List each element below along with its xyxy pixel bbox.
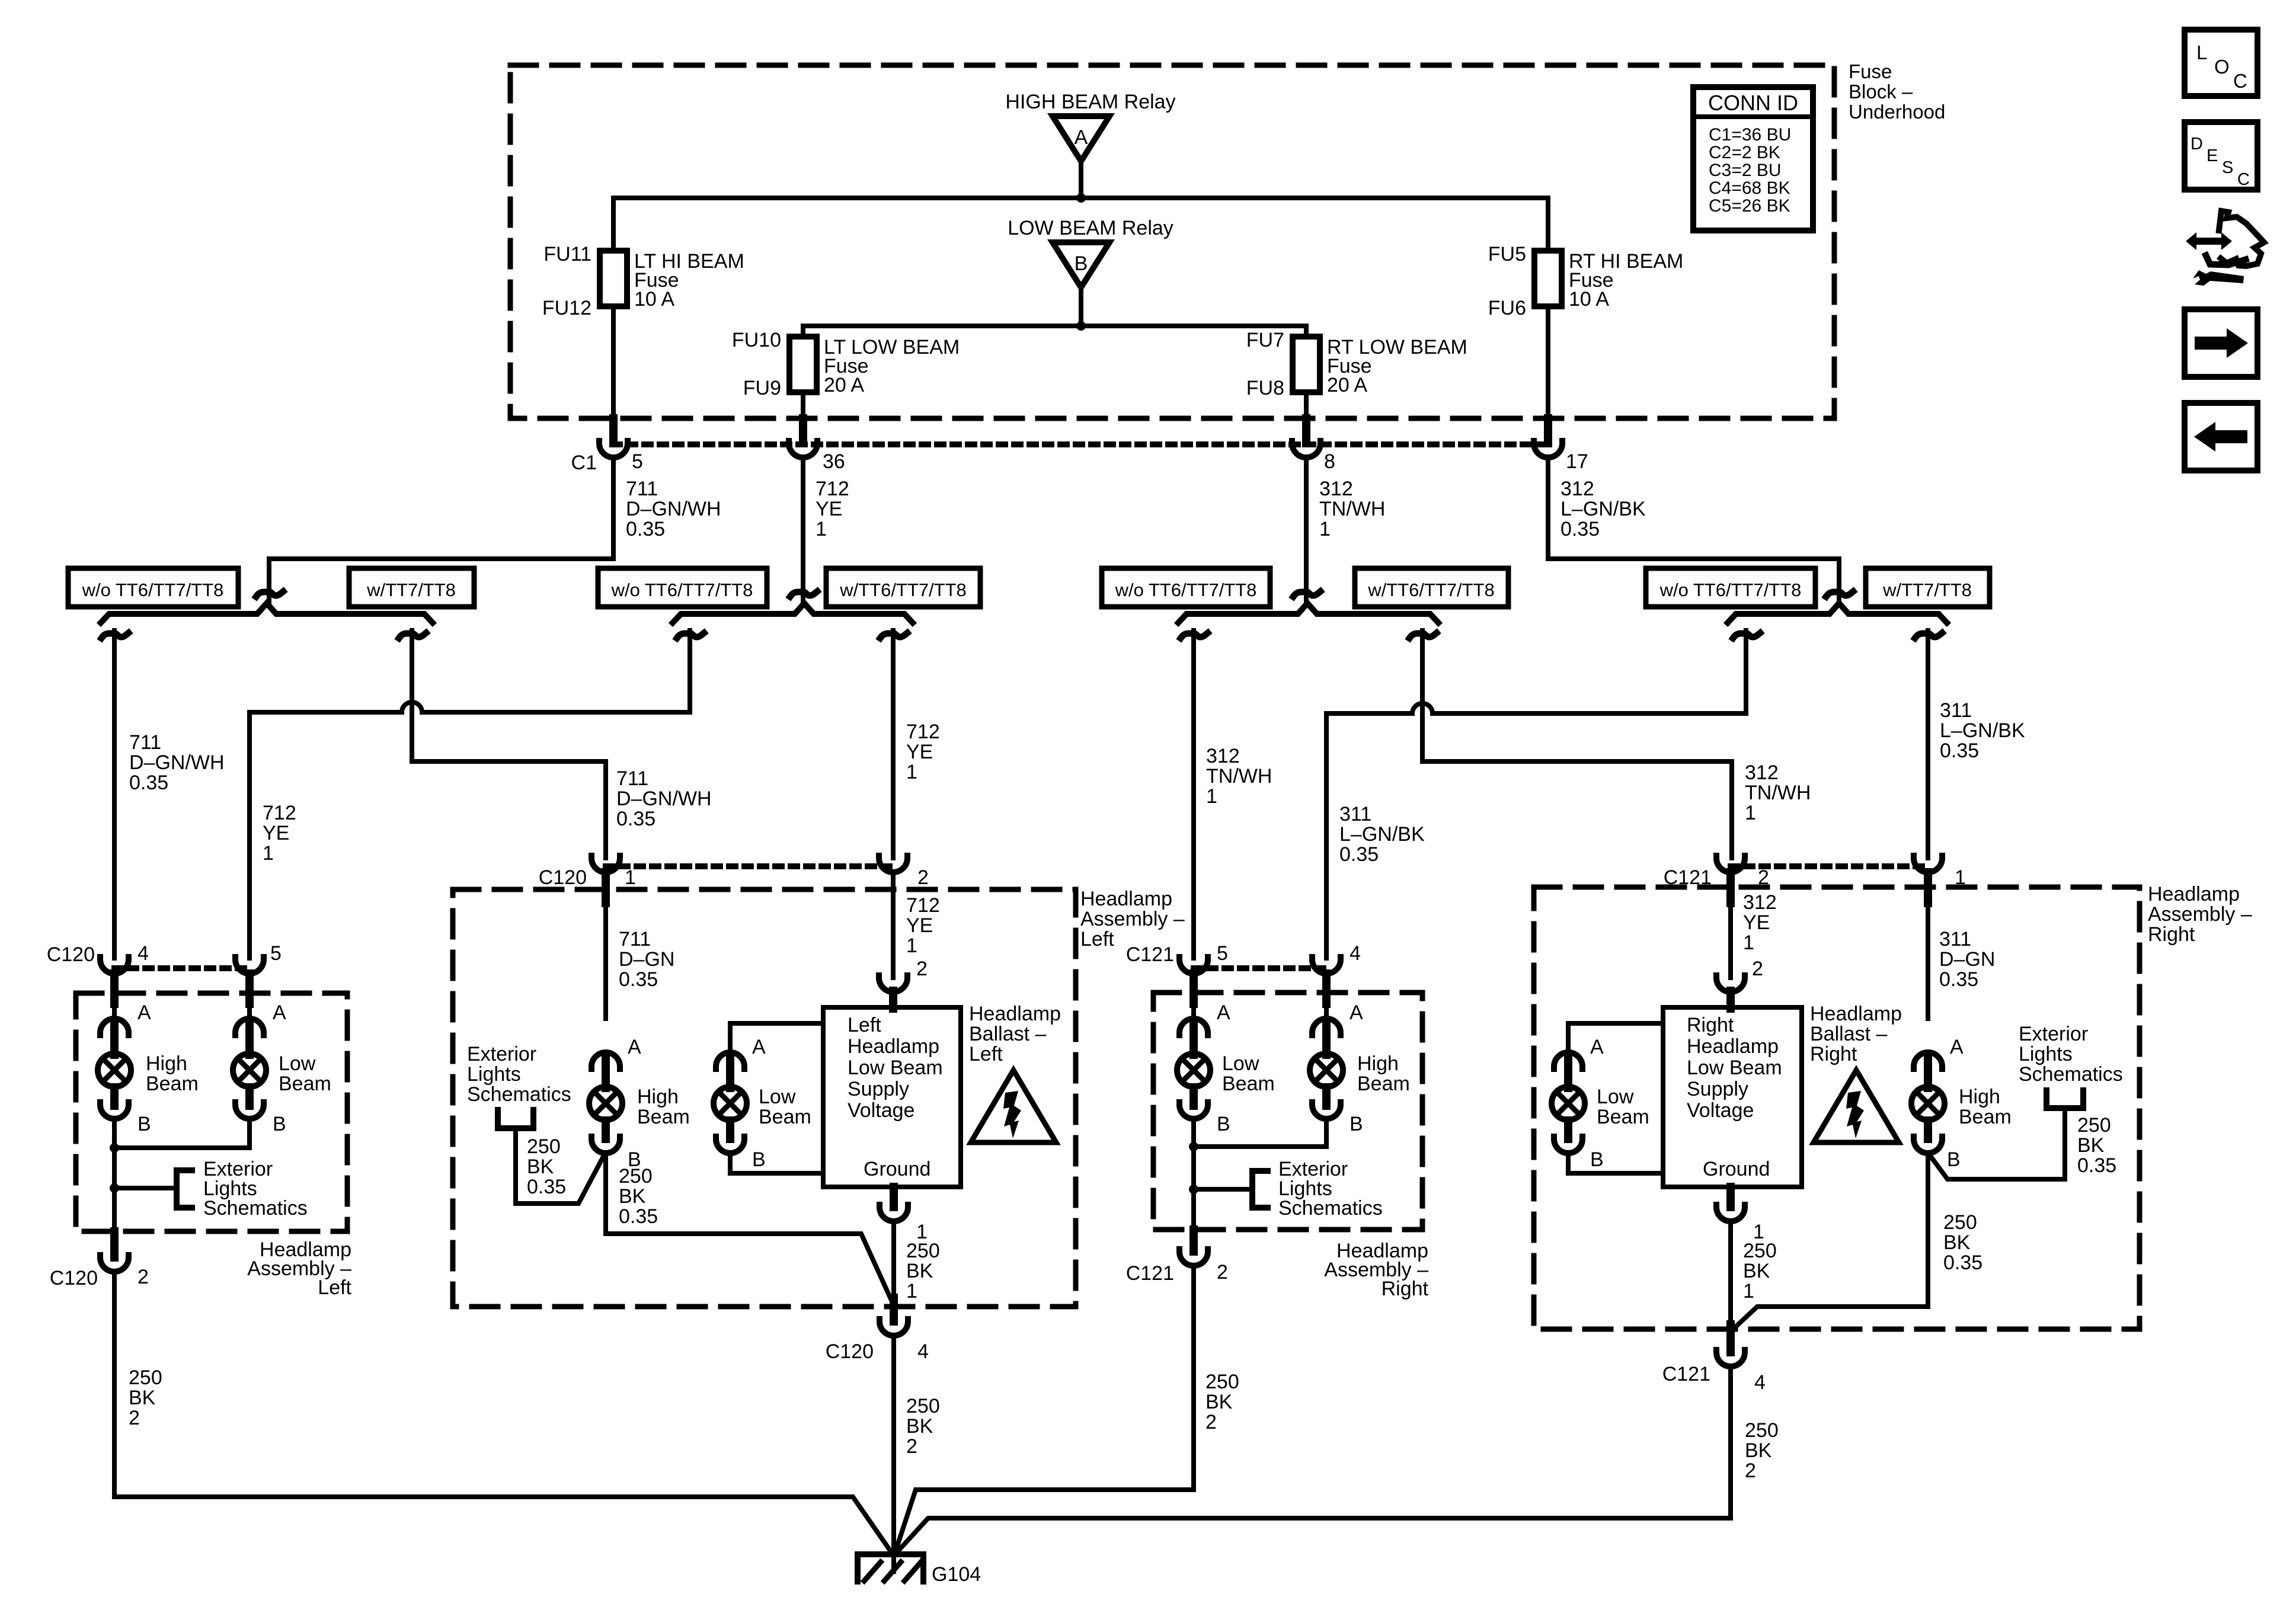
svg-text:L: L — [2196, 41, 2207, 63]
svg-text:A: A — [1590, 1036, 1604, 1058]
svg-text:2: 2 — [916, 958, 928, 980]
wire to exterior lights ref — [114, 1186, 177, 1190]
fuse FU7/FU8 RT LOW BEAM — [1293, 337, 1320, 392]
connector C120 pin 4 bottom — [880, 1319, 908, 1336]
wire to high beam lamp A — [112, 1001, 117, 1019]
connector ballast pin 2 right — [1716, 975, 1745, 992]
stub through box bottom — [890, 1298, 898, 1321]
svg-text:w/o TT6/TT7/TT8: w/o TT6/TT7/TT8 — [1115, 580, 1257, 600]
svg-text:C: C — [2233, 70, 2247, 92]
svg-text:w/o TT6/TT7/TT8: w/o TT6/TT7/TT8 — [82, 580, 224, 600]
warning triangle right — [1814, 1070, 1899, 1142]
headlamp assembly right ballast dashed box — [1534, 887, 2140, 1329]
wire 312 w/o option to C121 pin 5 — [1191, 630, 1196, 958]
option brace 2 — [673, 603, 913, 623]
option box w/TT7/TT8 (2) — [349, 568, 474, 607]
stub C121 pin5 into box — [1189, 974, 1198, 1004]
stub C121 pin1 into box — [1924, 872, 1932, 903]
wire to low beam lamp A — [1191, 1001, 1196, 1019]
wire lamp B to ballast — [730, 1153, 823, 1173]
svg-text:CONN ID: CONN ID — [1708, 91, 1798, 115]
svg-text:E: E — [2207, 146, 2218, 165]
splice squiggle above brace 1 — [256, 591, 283, 597]
icon arrow right box — [2185, 309, 2257, 377]
svg-text:A: A — [1350, 1001, 1363, 1024]
svg-text:4: 4 — [917, 1340, 929, 1363]
svg-text:Ground: Ground — [1703, 1158, 1770, 1180]
wire 711 w/o option to C120 pin 4 — [112, 630, 117, 958]
connector C1 pin 36 — [789, 441, 817, 457]
wire 311 w/TT7/TT8 to C121 pin 1 — [1926, 630, 1930, 858]
svg-text:FU9: FU9 — [743, 377, 781, 399]
wire 311 D-GN to high beam lamp right — [1926, 901, 1930, 1019]
lamp pin B left high beam — [100, 1102, 129, 1119]
svg-text:O: O — [2214, 56, 2230, 78]
connector C120 dotted line pins 4-5 — [114, 965, 250, 971]
wire 312 w/TT6 option to C121 pin 2 — [1422, 630, 1732, 858]
stub ballast ground out right — [1726, 1187, 1735, 1207]
ground G104 — [858, 1554, 923, 1582]
svg-text:S: S — [2222, 158, 2233, 177]
wire high beam B to C120 pin 4 — [606, 1153, 894, 1305]
wire to exterior lights ref right — [1194, 1187, 1252, 1192]
option brace 3 — [1178, 603, 1438, 623]
connector C121 pin 5 — [1179, 957, 1208, 974]
wire 711 to option brace 1 — [269, 457, 613, 603]
svg-text:w/TT6/TT7/TT8: w/TT6/TT7/TT8 — [1367, 580, 1495, 600]
lamp Low Beam mid — [714, 1087, 747, 1120]
lamp pin A mid high beam — [591, 1052, 620, 1069]
svg-text:17: 17 — [1566, 450, 1588, 473]
option brace 4 — [1728, 603, 1947, 623]
connector C1 pin 17 — [1534, 441, 1562, 457]
connector C120 pin 5 — [235, 957, 264, 974]
exterior lights schematics bracket rightmost — [2046, 1090, 2083, 1108]
wire 250 BK 1 — [891, 1221, 896, 1304]
wire lamp A to ballast — [730, 1023, 823, 1052]
svg-text:A: A — [752, 1036, 766, 1058]
lamp pin A right low beam — [1179, 1019, 1208, 1035]
lamp pin B mid low beam — [716, 1137, 744, 1153]
connector ballast pin 2 — [879, 975, 907, 992]
splice squiggle branch x=3253 — [1915, 633, 1942, 638]
svg-text:LOW BEAM Relay: LOW BEAM Relay — [1008, 217, 1173, 239]
lamp pin B right low beam — [1179, 1102, 1208, 1119]
wire 250 BK 2 left to G104 — [114, 1271, 892, 1553]
svg-text:B: B — [1350, 1113, 1363, 1135]
svg-text:B: B — [273, 1113, 286, 1135]
svg-text:B: B — [1075, 252, 1088, 275]
svg-text:w/TT7/TT8: w/TT7/TT8 — [1882, 580, 1972, 600]
wire 311 w/o option drop — [1744, 630, 1748, 713]
svg-text:C120: C120 — [539, 866, 587, 889]
wire high beam B to C121 pin 4 rightmost — [1731, 1153, 1928, 1331]
svg-text:C1=36 BUC2=2 BKC3=2 BUC4=68 BK: C1=36 BUC2=2 BKC3=2 BUC4=68 BKC5=26 BK — [1709, 125, 1791, 216]
lamp High Beam right — [1310, 1054, 1343, 1087]
warning triangle left — [971, 1070, 1056, 1142]
splice squiggle branch x=193 — [101, 633, 129, 638]
svg-text:A: A — [1950, 1036, 1964, 1058]
svg-text:2: 2 — [917, 866, 929, 889]
svg-text:C120: C120 — [50, 1267, 98, 1289]
lamp pin B mid high beam — [591, 1137, 620, 1153]
svg-text:FU6: FU6 — [1488, 297, 1526, 319]
svg-text:FU10: FU10 — [732, 329, 781, 351]
lamp Low Beam right ballast — [1552, 1087, 1585, 1120]
lamp High Beam rightmost — [1911, 1087, 1945, 1120]
lamp Low Beam left — [233, 1054, 266, 1087]
stub lamp B — [1189, 1087, 1198, 1106]
ballast box Left Headlamp Low Beam Supply Voltage — [823, 1007, 961, 1187]
wire relay B stem — [1079, 286, 1083, 326]
wire FU12 to C1 pin 5 — [611, 306, 616, 421]
lamp pin A left low beam — [235, 1019, 264, 1035]
connector C121 pin 2 — [1179, 1249, 1208, 1266]
splice squiggle branch x=695 — [399, 633, 426, 638]
stub through box bottom — [110, 1231, 119, 1257]
ballast box Right Headlamp Low Beam Supply Voltage — [1663, 1007, 1802, 1187]
svg-text:4: 4 — [1350, 942, 1361, 965]
connector C120 dotted line pins 1-2 — [606, 863, 893, 869]
lamp pin B left low beam — [235, 1102, 264, 1119]
fuse FU11/FU12 LT HI BEAM — [600, 251, 627, 306]
splice squiggle branch x=1507 — [880, 633, 907, 638]
wire 250 BK 2 to G104 — [891, 1335, 896, 1554]
stub C121 pin4 into box — [1322, 974, 1331, 1004]
headlamp assembly left ballast dashed box — [453, 889, 1076, 1307]
connector C120 pin 4 — [100, 957, 129, 974]
headlamp assembly left dashed box — [76, 993, 347, 1231]
wire 250 BK 1 right — [1728, 1221, 1733, 1327]
wire bus1 high beam feed — [613, 198, 1548, 251]
svg-text:4: 4 — [137, 942, 149, 965]
headlamp assembly right dashed box — [1153, 993, 1422, 1230]
wire 712 w/o option to C120 pin 5 — [247, 712, 252, 958]
stub C120 pin4 into box — [110, 974, 119, 1004]
svg-text:2: 2 — [137, 1266, 149, 1288]
relay B LOW BEAM Relay — [1008, 217, 1173, 287]
wire 250 BK 2 rightmost to G104 — [896, 1366, 1731, 1553]
svg-text:HIGH BEAM Relay: HIGH BEAM Relay — [1005, 91, 1175, 113]
svg-text:B: B — [752, 1148, 766, 1171]
stub lamp B — [245, 1087, 254, 1106]
svg-text:A: A — [273, 1001, 286, 1024]
stub into ballast box right — [1726, 991, 1735, 1009]
lamp Low Beam right — [1177, 1054, 1210, 1087]
svg-text:1: 1 — [625, 866, 636, 889]
svg-text:B: B — [1947, 1148, 1961, 1171]
stub C120 pin1 into box — [602, 872, 610, 903]
splice squiggle above brace 4 — [1826, 591, 1853, 597]
splice squiggle branch x=2400 — [1409, 633, 1437, 638]
option box w/TT7/TT8 (8) — [1866, 568, 1990, 607]
svg-text:A: A — [137, 1001, 151, 1024]
lamp pin A left high beam — [100, 1019, 129, 1035]
icon arrow left box — [2185, 403, 2257, 470]
wire 311 w/o option to C121 pin 4 — [1324, 713, 1329, 958]
option box w/TT6/TT7/TT8 (6) — [1355, 568, 1508, 607]
svg-text:36: 36 — [823, 450, 845, 473]
connector C1 dotted line — [613, 441, 1548, 447]
wire 712 YE to ballast pin 2 — [891, 872, 896, 978]
junction lamp returns — [110, 1143, 119, 1153]
option box w/TT6/TT7/TT8 (4) — [826, 568, 980, 607]
svg-text:C121: C121 — [1126, 1262, 1174, 1285]
junction exterior lights tap right — [1189, 1185, 1198, 1194]
svg-text:w/TT7/TT8: w/TT7/TT8 — [366, 580, 456, 600]
wire 311 w/o option horizontal with hop — [1326, 703, 1746, 713]
wire 711 w/TT7/TT8 to C120 pin 1 — [412, 630, 606, 858]
wire lamp A to ballast right — [1568, 1023, 1663, 1052]
splice squiggle branch x=2014 — [1181, 633, 1208, 638]
lamp pin B right low beam ballast — [1554, 1137, 1582, 1153]
wire high beam B to junction right — [1194, 1118, 1326, 1147]
junction exterior lights tap — [110, 1183, 119, 1193]
svg-text:2: 2 — [1217, 1261, 1228, 1283]
connector C121 pin 2 right — [1716, 856, 1745, 872]
stub through box bottom rightmost — [1726, 1324, 1735, 1352]
wire 712 w/o option horizontal with hop — [250, 702, 690, 712]
lamp pin A right low beam ballast — [1554, 1052, 1582, 1069]
wire 712 w/o option drop — [687, 630, 692, 712]
lamp High Beam mid — [589, 1087, 622, 1120]
wire exterior ref to high beam B rightmost — [1929, 1108, 2065, 1179]
lamp pin A right high beam — [1312, 1019, 1341, 1035]
svg-text:A: A — [1217, 1001, 1230, 1024]
splice squiggle branch x=2946 — [1733, 633, 1760, 638]
option box w/o TT6/TT7/TT8 (5) — [1102, 568, 1270, 607]
svg-text:FU11: FU11 — [543, 243, 591, 265]
lamp pin A mid low beam — [716, 1052, 744, 1069]
fuse block - underhood dashed box — [510, 65, 1834, 418]
icon harness wrench — [2186, 211, 2264, 286]
wire to high beam lamp A — [1324, 1001, 1329, 1019]
connector C120 pin 2 mid — [879, 856, 907, 872]
stub ballast ground out — [890, 1187, 898, 1207]
option box w/o TT6/TT7/TT8 (3) — [598, 568, 767, 607]
svg-text:w/o TT6/TT7/TT8: w/o TT6/TT7/TT8 — [611, 580, 753, 600]
icon DESC box — [2185, 122, 2257, 190]
svg-text:8: 8 — [1324, 450, 1335, 473]
connector C120 pin 2 — [100, 1255, 129, 1272]
exterior lights schematics bracket mid-left — [498, 1110, 533, 1128]
stub lamp B — [1924, 1121, 1932, 1139]
svg-text:C: C — [2237, 170, 2250, 189]
junction relay B / bus2 — [1076, 321, 1086, 331]
stub C121 pin2 into box — [1726, 872, 1735, 903]
stub lamp B — [110, 1087, 119, 1106]
connector ballast ground pin 1 — [880, 1205, 908, 1221]
wire 312 L-GN/BK to option brace 4 — [1548, 457, 1839, 603]
wire lamp B to ballast right — [1568, 1153, 1663, 1173]
connector C120 pin 1 — [591, 856, 620, 872]
splice squiggle above brace 3 — [1293, 591, 1320, 597]
wire 712 to option brace 2 — [801, 457, 805, 603]
fuse FU10/FU9 LT LOW BEAM — [789, 337, 817, 392]
splice squiggle branch x=1164 — [677, 633, 704, 638]
option brace 1 — [101, 603, 433, 623]
svg-text:w/o TT6/TT7/TT8: w/o TT6/TT7/TT8 — [1659, 580, 1802, 600]
wire 312 YE to ballast pin 2 right — [1728, 901, 1733, 978]
svg-text:4: 4 — [1754, 1371, 1766, 1394]
connector C121 dotted line pins 5-4 — [1194, 965, 1326, 971]
svg-text:5: 5 — [632, 450, 643, 473]
stub through box bottom right — [1189, 1230, 1198, 1251]
wire low beam B to junction — [114, 1118, 250, 1148]
wire relay A stem — [1079, 160, 1083, 198]
svg-text:5: 5 — [270, 942, 282, 965]
svg-text:C120: C120 — [826, 1340, 874, 1363]
stub lamp B — [1322, 1087, 1331, 1106]
stub into ballast box — [889, 991, 897, 1009]
svg-text:FU5: FU5 — [1488, 243, 1526, 265]
option box w/o TT6/TT7/TT8 (7) — [1646, 568, 1815, 607]
wire 250 BK 2 right to G104 — [895, 1265, 1194, 1553]
svg-text:2: 2 — [1752, 958, 1763, 980]
connector C121 pin 4 — [1312, 957, 1341, 974]
svg-text:C121: C121 — [1126, 943, 1174, 966]
svg-text:D: D — [2191, 135, 2203, 153]
svg-text:B: B — [1590, 1148, 1604, 1171]
svg-text:G104: G104 — [932, 1563, 981, 1586]
connector C1 pin 8 — [1292, 441, 1320, 457]
exterior lights schematics bracket right assembly — [1252, 1171, 1268, 1208]
CONN ID table — [1693, 87, 1813, 231]
svg-text:Ground: Ground — [864, 1158, 930, 1180]
connector C1 pin 5 — [599, 441, 628, 457]
connector C121 pin 4 bottom right — [1716, 1350, 1745, 1366]
svg-text:B: B — [1217, 1113, 1230, 1135]
lamp pin B right high beam — [1312, 1102, 1341, 1119]
exterior lights schematics bracket left — [177, 1170, 192, 1208]
icon LOC box — [2185, 30, 2257, 96]
svg-text:FU8: FU8 — [1246, 377, 1284, 399]
lamp High Beam left — [98, 1054, 131, 1087]
lamp pin B rightmost high beam — [1914, 1137, 1942, 1153]
wire FU9 to C1 pin 36 — [801, 392, 805, 421]
connector ballast ground pin 1 right — [1716, 1205, 1745, 1221]
stub C120 pin5 into box — [245, 974, 254, 1004]
svg-text:FU12: FU12 — [542, 297, 591, 319]
svg-text:A: A — [1075, 126, 1088, 149]
connector C121 pin 1 right — [1914, 856, 1942, 872]
stub lamp B — [602, 1121, 610, 1139]
wire high beam B down — [112, 1118, 117, 1231]
svg-text:FU7: FU7 — [1246, 329, 1284, 351]
svg-text:C121: C121 — [1662, 1363, 1710, 1385]
stub lamp B — [726, 1121, 734, 1139]
splice squiggle above brace 2 — [790, 591, 817, 597]
wire low beam B down — [1191, 1118, 1196, 1230]
wire FU6 to C1 pin 17 — [1546, 306, 1550, 421]
junction lamp returns right — [1189, 1142, 1198, 1151]
option box w/o TT6/TT7/TT8 (1) — [68, 568, 238, 607]
relay A HIGH BEAM Relay — [1005, 91, 1175, 161]
wire 712 w/TT6 option to C120 pin 2 — [891, 630, 896, 858]
lamp pin A rightmost high beam — [1914, 1052, 1942, 1069]
wire 711 D-GN to high beam lamp — [603, 901, 608, 1019]
wire bus2 low beam feed — [803, 326, 1306, 337]
connector C121 dotted line pins 2-1 — [1731, 863, 1928, 869]
svg-text:5: 5 — [1217, 942, 1228, 965]
svg-text:w/TT6/TT7/TT8: w/TT6/TT7/TT8 — [839, 580, 967, 600]
fuse FU5/FU6 RT HI BEAM — [1534, 251, 1562, 306]
wire 312 TN/WH to option brace 3 — [1304, 457, 1309, 603]
svg-text:C1: C1 — [571, 452, 597, 474]
svg-text:A: A — [628, 1036, 641, 1058]
wire to low beam lamp A — [247, 1001, 252, 1019]
svg-text:B: B — [137, 1113, 151, 1135]
stub lamp B — [1564, 1121, 1572, 1139]
wire FU8 to C1 pin 8 — [1304, 392, 1309, 421]
junction relay A / bus1 — [1076, 193, 1086, 203]
wire exterior ref to high beam B — [516, 1128, 605, 1204]
svg-text:C120: C120 — [47, 943, 95, 966]
